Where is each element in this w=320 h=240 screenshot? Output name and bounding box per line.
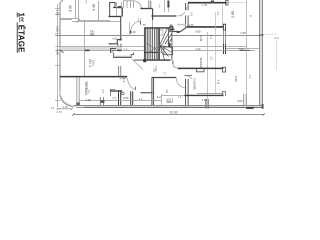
svg-text:0.80: 0.80	[112, 38, 117, 41]
svg-text:1.80: 1.80	[92, 31, 95, 36]
svg-text:3.45: 3.45	[92, 4, 96, 11]
interior wall pair x185.6	[185, 3, 187, 27]
svg-text:1.4: 1.4	[122, 78, 126, 83]
bottom-right walls	[162, 95, 184, 97]
svg-text:1.20: 1.20	[196, 48, 201, 51]
svg-text:1.30: 1.30	[130, 30, 136, 34]
svg-text:0.9: 0.9	[152, 68, 155, 72]
svg-text:1.35: 1.35	[202, 3, 208, 7]
left outer wall	[59, 3, 61, 95]
svg-text:TERRAS.: TERRAS.	[84, 81, 88, 96]
svg-text:p.: p.	[249, 15, 253, 18]
terrace inner bracket	[110, 90, 115, 97]
svg-text:2.1: 2.1	[209, 57, 213, 61]
svg-text:1.2: 1.2	[216, 12, 220, 16]
svg-text:1.4: 1.4	[51, 107, 55, 110]
svg-text:0.90: 0.90	[195, 30, 201, 34]
wall left of entry	[109, 16, 122, 18]
left dimension chain	[55, 4, 60, 107]
stair top right cap	[170, 27, 173, 30]
svg-text:9.2m: 9.2m	[91, 60, 94, 65]
door arc entry	[134, 1, 142, 9]
svg-text:1.7: 1.7	[163, 72, 167, 76]
horizontal small dims	[86, 30, 247, 104]
svg-text:3.20: 3.20	[56, 26, 60, 32]
svg-text:1.65: 1.65	[199, 36, 203, 42]
channel	[114, 53, 134, 58]
main middle wall	[187, 26, 224, 28]
right side annotations	[264, 33, 277, 35]
top-right wall thick	[188, 2, 227, 4]
svg-text:0.9: 0.9	[101, 90, 104, 94]
svg-text:0.9: 0.9	[190, 12, 194, 16]
winder fan	[160, 29, 172, 60]
svg-text:3.60: 3.60	[68, 5, 72, 12]
lower-right main wall	[178, 67, 224, 69]
small box top	[159, 30, 163, 35]
stair exit hook	[172, 60, 174, 64]
svg-text:4.60: 4.60	[237, 99, 243, 103]
long verticals	[84, 21, 86, 77]
lower-left dark wall	[60, 76, 127, 78]
svg-text:2.80: 2.80	[234, 76, 238, 82]
svg-text:4.00: 4.00	[239, 48, 244, 51]
stair block	[134, 25, 180, 63]
svg-text:1.30: 1.30	[63, 105, 69, 109]
kitchen wall pair	[185, 79, 187, 106]
svg-text:CH. 2: CH. 2	[88, 59, 92, 67]
svg-text:1.36: 1.36	[189, 23, 195, 27]
svg-text:2.70: 2.70	[57, 110, 63, 114]
door leaf + arc	[128, 78, 136, 90]
bottom outer wall	[74, 105, 263, 107]
svg-text:SEJOUR: SEJOUR	[199, 58, 203, 69]
svg-text:0.9: 0.9	[138, 19, 142, 22]
X cross	[147, 44, 164, 54]
svg-text:2.1: 2.1	[209, 35, 213, 39]
svg-text:1.1: 1.1	[248, 75, 251, 79]
mid-left nested corners	[111, 49, 117, 54]
svg-text:1.05: 1.05	[240, 31, 246, 35]
svg-text:1.9: 1.9	[216, 80, 220, 85]
title: 1er ETAGE rotated	[17, 13, 26, 54]
svg-text:1.20: 1.20	[202, 98, 208, 102]
hall wall	[151, 15, 176, 17]
long horizontal lines	[55, 35, 144, 37]
svg-text:1.2: 1.2	[157, 95, 161, 99]
bottom-left rounded corner	[60, 94, 74, 106]
terrace verticals at bottom	[76, 78, 78, 106]
svg-text:2.95: 2.95	[56, 49, 60, 55]
svg-text:2.85: 2.85	[231, 11, 235, 18]
top terrace dimension lines	[60, 0, 121, 23]
top-left corner curve	[60, 0, 63, 6]
rotated room labels	[84, 12, 253, 96]
svg-text:10.60: 10.60	[170, 110, 178, 114]
svg-text:wc: wc	[165, 90, 169, 94]
corridor door arc	[130, 21, 140, 33]
svg-text:1.05: 1.05	[56, 10, 60, 16]
top middle block	[110, 3, 115, 17]
right gray double band	[259, 0, 262, 106]
svg-text:0.60: 0.60	[123, 96, 129, 100]
svg-text:CUISINE: CUISINE	[192, 79, 196, 90]
svg-text:1.30: 1.30	[86, 98, 92, 102]
box right mid	[164, 47, 173, 55]
svg-text:1.2: 1.2	[139, 97, 143, 101]
bottom dimension lines	[58, 108, 73, 110]
